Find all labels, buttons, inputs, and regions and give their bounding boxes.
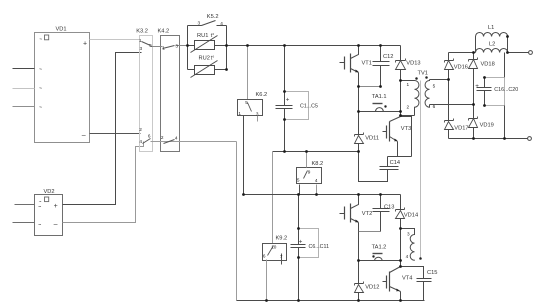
svg-text:4: 4 [175,136,178,141]
svg-text:VD14: VD14 [404,213,418,219]
svg-text:5: 5 [149,43,152,48]
svg-text:VD13: VD13 [406,61,420,67]
svg-text:2: 2 [139,127,142,132]
svg-text:L1: L1 [488,25,494,31]
svg-text:VD12: VD12 [365,285,379,291]
svg-text:–: – [82,133,86,140]
svg-text:VT4: VT4 [402,276,412,282]
svg-text:TA1.1: TA1.1 [372,94,387,100]
svg-text:C12: C12 [383,54,393,60]
svg-text:K9.2: K9.2 [276,236,288,242]
svg-text:C1...C5: C1...C5 [300,104,318,110]
svg-text:3: 3 [175,44,178,49]
svg-text:4: 4 [315,178,318,183]
svg-text:~: ~ [39,86,42,92]
svg-text:5: 5 [433,84,436,89]
svg-text:C16...C20: C16...C20 [494,87,518,93]
svg-text:7: 7 [280,254,283,259]
svg-text:C15: C15 [427,270,437,276]
svg-text:2: 2 [161,135,164,140]
svg-text:t°: t° [211,33,215,39]
svg-text:K5.2: K5.2 [207,14,219,20]
svg-text:VD19: VD19 [480,123,494,129]
svg-text:4: 4 [406,254,409,259]
svg-text:5: 5 [297,178,300,183]
svg-text:K4.2: K4.2 [158,29,170,35]
svg-text:C6...C11: C6...C11 [309,244,330,250]
svg-text:–: – [54,221,58,228]
svg-text:VD2: VD2 [44,189,55,195]
svg-text:4: 4 [139,139,142,144]
svg-text:4: 4 [220,21,223,26]
svg-text:~: ~ [39,67,42,73]
svg-text:+: + [83,40,87,47]
svg-text:VD1: VD1 [56,27,67,33]
svg-text:TA1.2: TA1.2 [372,244,387,250]
svg-text:6: 6 [433,104,436,109]
svg-text:1: 1 [238,111,241,116]
svg-text:+: + [299,238,303,245]
svg-text:VT3: VT3 [401,126,411,132]
svg-text:t°: t° [211,55,215,61]
svg-text:~: ~ [39,199,42,204]
svg-text:VD17: VD17 [454,126,468,132]
svg-text:6: 6 [148,134,151,139]
svg-text:1: 1 [162,45,165,50]
svg-text:K3.2: K3.2 [136,29,148,35]
svg-text:VT2: VT2 [362,211,372,217]
svg-text:+: + [475,83,479,90]
svg-text:C14: C14 [390,160,400,166]
svg-text:RU2: RU2 [199,56,210,62]
svg-text:6: 6 [263,253,266,258]
svg-text:10: 10 [271,244,277,249]
svg-text:VT1: VT1 [362,61,372,67]
svg-text:3: 3 [256,112,259,117]
svg-text:VD11: VD11 [365,136,379,142]
svg-text:5: 5 [245,100,248,105]
svg-text:1: 1 [139,38,142,43]
svg-text:K6.2: K6.2 [256,92,268,98]
svg-text:3: 3 [198,21,201,26]
svg-text:3: 3 [407,231,410,236]
svg-text:K8.2: K8.2 [312,161,324,167]
svg-text:VD16: VD16 [454,64,468,70]
svg-text:C13: C13 [384,205,394,211]
svg-text:+: + [286,97,290,104]
svg-text:9: 9 [308,169,311,174]
svg-text:L2: L2 [489,42,495,48]
svg-text:~: ~ [39,105,42,111]
svg-text:TV1: TV1 [418,71,428,77]
svg-text:VD18: VD18 [481,61,495,67]
svg-text:+: + [54,203,58,210]
svg-text:~: ~ [39,36,42,41]
svg-text:3: 3 [140,46,143,51]
svg-text:2: 2 [407,104,410,109]
svg-text:1: 1 [407,82,410,87]
svg-text:RU1: RU1 [197,33,208,39]
